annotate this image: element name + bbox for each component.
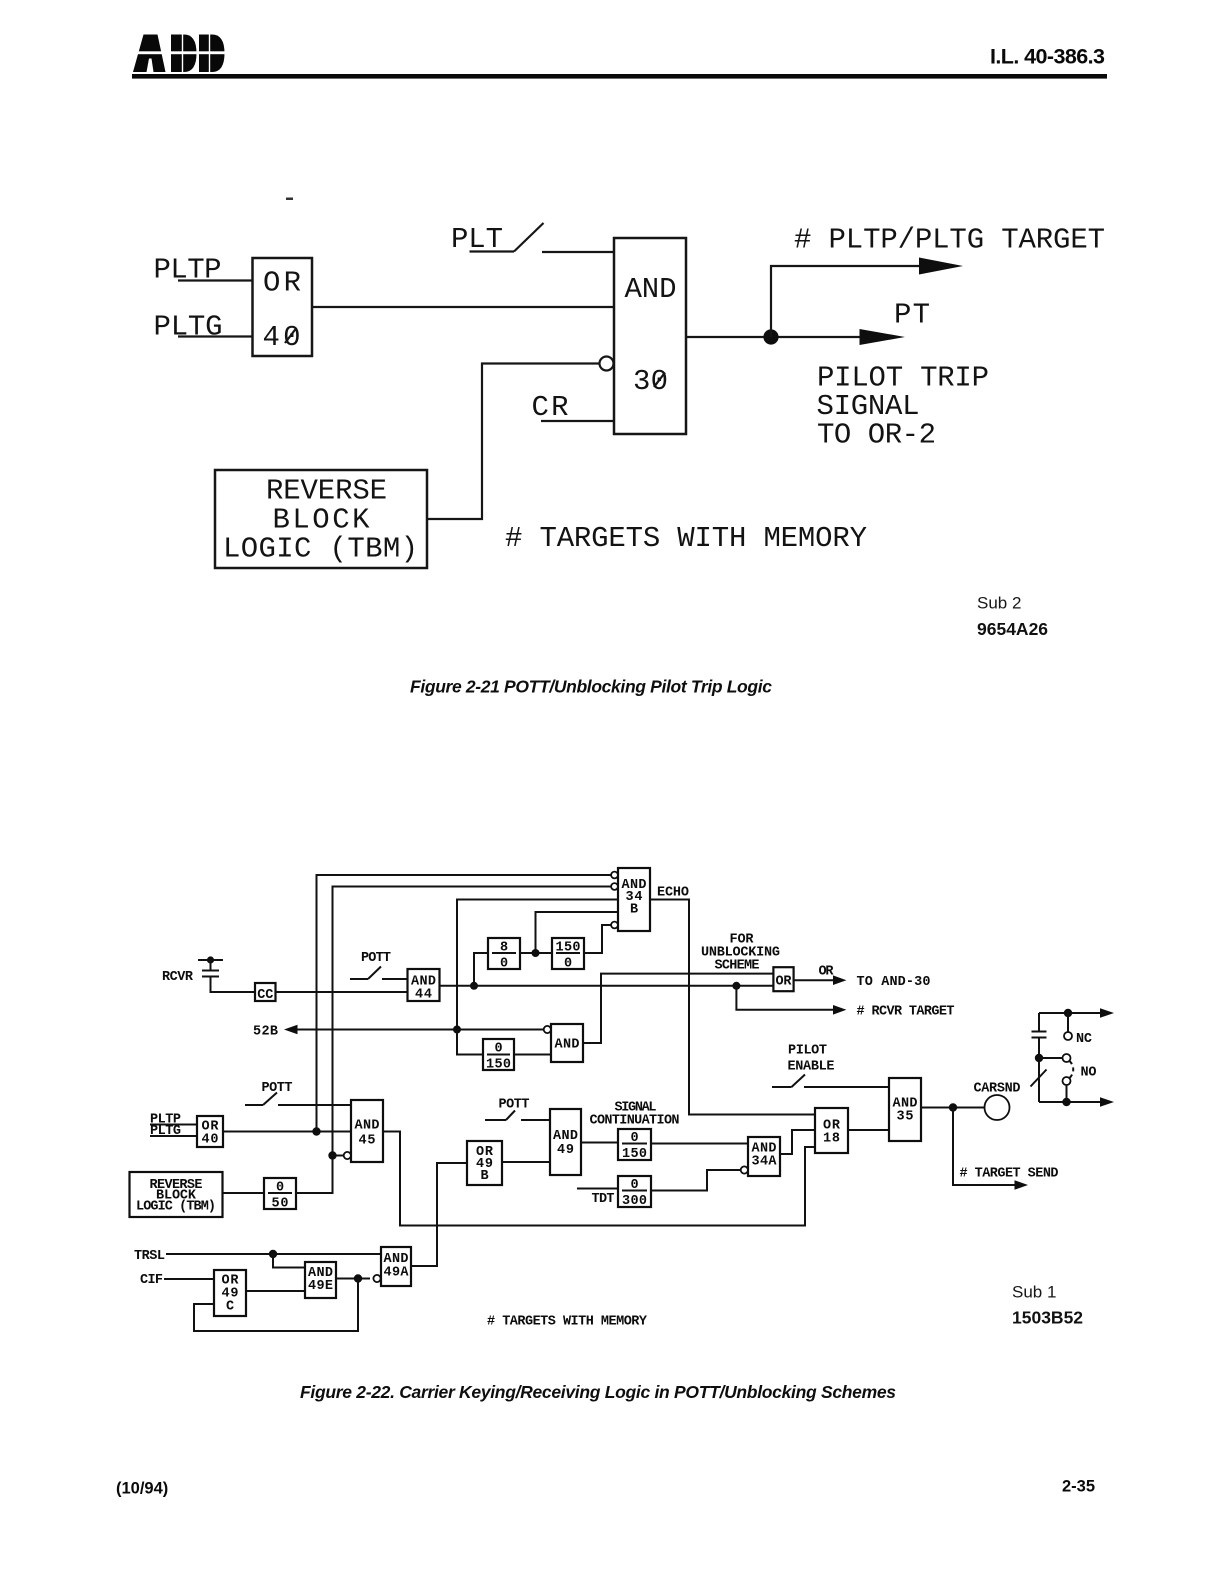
wire AND-49A output up to OR-49B (411, 1163, 467, 1266)
AND gate (52B supervision) (551, 1024, 583, 1062)
svg-text:35: 35 (897, 1110, 914, 1125)
AND gate 35 (889, 1078, 921, 1141)
svg-text:RCVR: RCVR (162, 970, 194, 985)
wire OR-40 output to AND-45 (223, 1131, 351, 1133)
wire 0/150 output to AND-34A (651, 1143, 748, 1145)
label CARSND (974, 1082, 1021, 1097)
svg-text:0: 0 (564, 957, 572, 972)
wire AND-35 output to CARSND coil (921, 1107, 985, 1109)
junction node bus1 (312, 1127, 320, 1135)
wire TRSL junction to AND-49E input (273, 1254, 305, 1268)
wire drop to RCVR TARGET arrow (736, 986, 838, 1010)
timer 0/150 (52B branch) (483, 1039, 514, 1073)
node PLTP label (154, 254, 222, 287)
label # PLTP/PLTG TARGET (794, 224, 1105, 257)
svg-text:# TARGETS WITH MEMORY: # TARGETS WITH MEMORY (505, 522, 867, 555)
junction node at 8/0 feed (470, 982, 478, 990)
wire 0/50 output up to AND-45 inverted input (296, 1156, 344, 1194)
svg-text:AND: AND (625, 273, 677, 306)
inverted input bubble on AND-45 (344, 1152, 351, 1159)
svg-text:TDT: TDT (592, 1192, 615, 1207)
inverted input bubbles on AND-34B (611, 872, 618, 879)
stray dash mark (286, 198, 293, 201)
svg-text:LOGIC (TBM): LOGIC (TBM) (223, 533, 418, 566)
wire feedback AND-49E output to OR-49C input (194, 1279, 358, 1332)
REVERSE BLOCK LOGIC (TBM) box (fig 2-22) (130, 1172, 223, 1217)
wire TRSL to AND-49A (166, 1253, 381, 1255)
svg-text:1503B52: 1503B52 (1012, 1308, 1083, 1328)
junction node on 52B line (453, 1026, 461, 1034)
timer 8/0 (488, 938, 520, 972)
svg-text:# TARGETS WITH MEMORY: # TARGETS WITH MEMORY (487, 1315, 648, 1330)
wire AND-34A output to OR-18 (780, 1130, 815, 1154)
carrier-send contact network (1032, 1013, 1047, 1102)
svg-text:CONTINUATION: CONTINUATION (590, 1114, 680, 1129)
svg-text:2-35: 2-35 (1062, 1478, 1095, 1496)
arrow # RCVR TARGET (833, 1005, 846, 1015)
wire riser to target arrow (771, 266, 922, 337)
label ECHO (657, 886, 689, 901)
svg-text:Figure 2-22. Carrier Keying/Re: Figure 2-22. Carrier Keying/Receiving Lo… (300, 1382, 896, 1402)
wire RBL to 0/50 (223, 1192, 265, 1194)
svg-text:OR: OR (776, 975, 793, 990)
svg-text:CC: CC (257, 988, 273, 1003)
node 52B label (253, 1025, 278, 1040)
junction node bottom rail (1062, 1098, 1070, 1106)
wire vertical bus 1 from OR-40 output junction to AND-34B input 1 (317, 875, 612, 1132)
arrow # TARGET SEND (1015, 1180, 1029, 1190)
wire vertical bus 2 from 0/50 timer junction to AND-34B input 2 (333, 887, 612, 1156)
OR gate 49C (214, 1270, 246, 1316)
REVERSE BLOCK LOGIC (TBM) box (215, 470, 427, 568)
AND gate 34A (748, 1137, 780, 1176)
svg-text:CIF: CIF (140, 1273, 163, 1288)
junction node on AND-49E output (354, 1274, 362, 1282)
svg-text:Sub 2: Sub 2 (977, 594, 1021, 613)
contact NO with dashed travel arc (1039, 1054, 1097, 1102)
label TO AND-30 (857, 975, 931, 990)
OR gate 40 (253, 258, 313, 356)
arrow to PLTP/PLTG TARGET (919, 258, 963, 275)
svg-text:PT: PT (894, 299, 930, 332)
AND gate 49 (550, 1109, 581, 1175)
wire contact bottom rail with output arrow (1039, 1101, 1105, 1103)
timer 150/0 (552, 938, 584, 972)
wire PLTP to OR-40 (178, 279, 253, 281)
junction node bus2 (328, 1151, 336, 1159)
wire AND (52B) output up to OR (unblocking) top input (583, 974, 773, 1043)
wire OR-49B output to AND-49 (502, 1161, 550, 1163)
junction node on TRSL line (269, 1250, 277, 1258)
AND gate 44 (408, 969, 440, 1003)
svg-text:PLTG: PLTG (154, 311, 223, 344)
wire 150/0 output to AND-34B input 5 (584, 925, 611, 953)
label OR (output) (819, 965, 835, 980)
svg-text:OR: OR (819, 965, 835, 980)
node CR label (532, 391, 569, 424)
svg-text:150: 150 (622, 1147, 647, 1162)
svg-text:(10/94): (10/94) (116, 1480, 168, 1498)
svg-text:NC: NC (1076, 1032, 1092, 1047)
node TDT label with input stub (577, 1189, 618, 1208)
wire AND-44 output to OR (unblocking) (440, 985, 774, 987)
svg-text:PILOT: PILOT (788, 1044, 827, 1059)
svg-text:AND: AND (553, 1129, 578, 1144)
svg-text:30: 30 (633, 365, 668, 398)
wire reverse-block logic to AND-30 inverted input (427, 364, 600, 520)
wire AND-44 junction up to 8/0 input (474, 953, 488, 986)
node RCVR label (162, 970, 194, 985)
svg-text:B: B (480, 1169, 488, 1184)
wire CIF to OR-49C (164, 1278, 214, 1280)
svg-text:49: 49 (557, 1143, 574, 1158)
junction node top rail (1064, 1009, 1072, 1017)
AND gate 45 (351, 1100, 383, 1162)
node PLT label (451, 223, 503, 256)
wire OR-18 output to AND-35 (848, 1129, 889, 1131)
svg-text:AND: AND (555, 1038, 580, 1053)
svg-text:# PLTP/PLTG TARGET: # PLTP/PLTG TARGET (794, 224, 1105, 257)
wire 8/0-150/0 junction riser to AND-34B input 4 (536, 912, 619, 953)
label FOR UNBLOCKING SCHEME (701, 933, 780, 974)
AND gate 49A (381, 1247, 411, 1286)
svg-text:TO AND-30: TO AND-30 (857, 975, 931, 990)
svg-text:NO: NO (1081, 1066, 1097, 1081)
wire ECHO output of AND-34B down to OR-18 (650, 900, 815, 1115)
switch POTT (receive) (350, 951, 408, 979)
wire 52B line to AND (52B) inverted input (297, 1029, 543, 1031)
timer 0/50 (264, 1178, 296, 1212)
timer 0/150 (signal continuation) (618, 1129, 651, 1162)
CARSND coil (985, 1095, 1010, 1120)
AND gate 49E (305, 1262, 336, 1298)
svg-text:52B: 52B (253, 1025, 278, 1040)
junction node between 8/0 and 150/0 (532, 949, 540, 957)
node PLTP label (fig 2-22) (150, 1113, 181, 1128)
label # RCVR TARGET (857, 1005, 955, 1020)
svg-text:# RCVR TARGET: # RCVR TARGET (857, 1005, 955, 1020)
label # TARGET SEND (960, 1167, 1059, 1182)
svg-text:Figure 2-21 POTT/Unblocking Pi: Figure 2-21 POTT/Unblocking Pilot Trip L… (410, 677, 772, 697)
svg-text:OR: OR (263, 267, 301, 300)
label SIGNAL CONTINUATION (590, 1101, 680, 1129)
OR gate 40 (fig 2-22) (197, 1116, 223, 1148)
node CIF label (140, 1273, 163, 1288)
wire 52B junction down to 0/150 input (457, 1030, 483, 1055)
RCVR coupling capacitor symbol (198, 956, 255, 992)
note # TARGETS WITH MEMORY (505, 522, 867, 555)
arrow TO AND-30 (794, 979, 838, 981)
svg-text:TO OR-2: TO OR-2 (817, 419, 936, 452)
timer 0/300 (618, 1176, 651, 1209)
operating slash on contact leg (1031, 1070, 1047, 1087)
svg-text:POTT: POTT (361, 951, 391, 966)
svg-text:45: 45 (359, 1134, 376, 1149)
svg-text:9654A26: 9654A26 (977, 619, 1048, 639)
node PLTG label (154, 311, 223, 344)
OR gate 18 (815, 1108, 848, 1153)
svg-text:34A: 34A (752, 1155, 778, 1170)
switch PLT (normally-open contact) (470, 223, 615, 252)
wire OR-49C output to AND-49E (246, 1290, 305, 1292)
header rule (132, 74, 1107, 79)
junction node on AND-35 output (949, 1103, 957, 1111)
svg-text:ECHO: ECHO (657, 886, 689, 901)
svg-text:40: 40 (202, 1133, 219, 1148)
svg-text:40: 40 (263, 321, 301, 354)
svg-text:B: B (630, 903, 638, 918)
svg-text:ENABLE: ENABLE (788, 1060, 835, 1075)
wire AND-49E output to AND-49A inverted input (336, 1278, 370, 1280)
OR gate 49B (467, 1141, 502, 1185)
node PLTG label (fig 2-22) (150, 1124, 181, 1139)
wire OR-40 output to AND-30 (312, 306, 614, 308)
node TRSL label (134, 1249, 165, 1264)
wire CR to AND-30 (541, 420, 614, 422)
contact NC (1064, 1013, 1092, 1047)
svg-text:150: 150 (486, 1058, 511, 1073)
arrow PT (pilot trip output) (860, 329, 906, 345)
svg-text:0: 0 (500, 957, 508, 972)
wire AND-49 output to 0/150 signal continuation timer (581, 1142, 618, 1144)
svg-text:TRSL: TRSL (134, 1249, 165, 1264)
switch POTT (trip enable) (245, 1081, 351, 1105)
ABB logo (133, 35, 225, 73)
wire AND-30 output (686, 336, 865, 338)
wire PLTG to OR-40 (150, 1135, 197, 1137)
AND gate 30 (614, 238, 686, 434)
svg-text:AND: AND (355, 1119, 380, 1134)
junction node mid rail (1035, 1054, 1043, 1062)
wire 0/150 output to AND lower input (514, 1054, 551, 1056)
wire 8/0 output to 150/0 input (520, 952, 552, 954)
wire PLTP to OR-40 (150, 1124, 197, 1126)
CC block (255, 983, 276, 1003)
OR gate (unblocking) (773, 967, 793, 991)
inverted input bubble on AND-34A (741, 1166, 748, 1173)
wire junction down to TARGET SEND arrow (953, 1108, 1020, 1186)
wire AND-45 output down and across to OR-18 (383, 1132, 815, 1226)
svg-text:44: 44 (415, 988, 432, 1003)
svg-text:# TARGET SEND: # TARGET SEND (960, 1167, 1059, 1182)
svg-text:300: 300 (622, 1194, 647, 1209)
svg-text:SCHEME: SCHEME (715, 959, 760, 974)
junction node to RCVR TARGET drop (732, 982, 740, 990)
AND gate 34B (618, 868, 650, 931)
svg-text:49A: 49A (384, 1266, 410, 1281)
inverted input bubble on AND-49A (373, 1275, 380, 1282)
svg-text:18: 18 (823, 1132, 840, 1147)
wire 0/300 output to AND-34A inverted input (651, 1170, 741, 1191)
svg-text:50: 50 (272, 1197, 289, 1212)
wire AND-44 output junction riser to AND-34B input 3 (457, 900, 618, 1055)
svg-text:CR: CR (532, 391, 569, 424)
wire contact top rail with output arrow (1039, 1012, 1105, 1014)
switch PILOT ENABLE (772, 1075, 889, 1088)
inverted input bubble on 52B AND (544, 1026, 551, 1033)
label PILOT TRIP SIGNAL TO OR-2 (817, 362, 990, 452)
node PT label (894, 299, 930, 332)
label PILOT ENABLE (788, 1044, 835, 1075)
wire PLTG to OR-40 (178, 335, 253, 337)
svg-text:49E: 49E (308, 1279, 333, 1294)
svg-text:C: C (226, 1300, 234, 1315)
svg-text:I.L. 40-386.3: I.L. 40-386.3 (990, 45, 1105, 69)
svg-text:LOGIC (TBM): LOGIC (TBM) (136, 1200, 216, 1215)
svg-text:Sub 1: Sub 1 (1012, 1283, 1056, 1302)
inverted input bubble on AND-30 (600, 357, 614, 371)
wire CC to AND-44 (276, 991, 408, 993)
switch POTT (keying) (485, 1098, 550, 1121)
arrow 52B (pointing left) (284, 1025, 298, 1035)
note # TARGETS WITH MEMORY (487, 1315, 648, 1330)
junction node on output (763, 329, 778, 344)
